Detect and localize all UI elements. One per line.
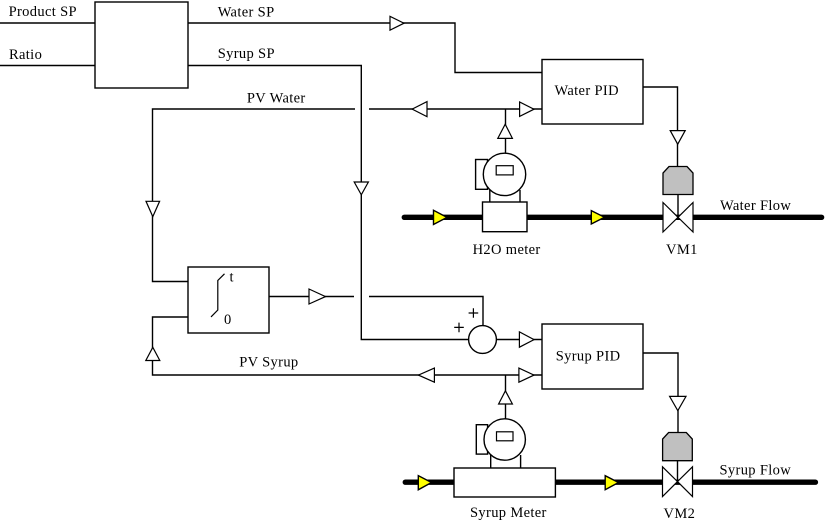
arrow right into Water PID — [520, 102, 534, 116]
ratio station block — [95, 2, 188, 88]
svg-text:0: 0 — [224, 312, 232, 328]
svg-text:Syrup PID: Syrup PID — [556, 348, 621, 364]
svg-text:VM2: VM2 — [664, 506, 696, 522]
flow arrow yellow water pipe 1 — [434, 210, 448, 224]
arrow down on PV Water left branch — [146, 201, 160, 216]
pipe water flow — [404, 215, 821, 220]
integrator block — [188, 267, 269, 333]
wire Ratio input — [0, 65, 95, 67]
arrow down from Water PID output — [670, 131, 685, 145]
arrow left on PV Syrup wire — [418, 368, 434, 382]
svg-text:Water SP: Water SP — [218, 4, 275, 20]
svg-text:H2O meter: H2O meter — [473, 242, 541, 258]
H2O meter neck — [490, 190, 520, 203]
arrow down from Syrup PID output — [670, 396, 686, 410]
svg-text:PV Water: PV Water — [247, 90, 306, 106]
arrow right from summing node into Syrup PID — [519, 332, 534, 347]
flow arrow yellow syrup pipe 2 — [605, 476, 618, 490]
wire Water SP: ratio box to Water PID — [188, 23, 542, 73]
syrup meter transmitter flag — [476, 425, 487, 454]
arrow up from H2O meter — [498, 124, 513, 138]
svg-text:Syrup Flow: Syrup Flow — [720, 462, 792, 478]
syrup meter body — [454, 468, 555, 497]
wire Syrup SP: ratio box down to summing node — [188, 66, 468, 340]
pipe syrup flow — [405, 480, 815, 485]
H2O meter body — [483, 202, 528, 232]
wire PV Syrup: Syrup PID input, left to integrator lower input — [153, 317, 543, 375]
wire PV Water left branch into integrator upper input — [153, 109, 356, 282]
svg-text:PV Syrup: PV Syrup — [239, 355, 298, 371]
wire summing node output to Syrup PID — [497, 339, 542, 341]
arrow right on Water SP wire — [390, 16, 404, 30]
svg-text:VM1: VM1 — [666, 242, 698, 258]
wire H2O meter to PV Water node — [505, 109, 507, 153]
arrow up into integrator lower input — [146, 347, 160, 360]
arrow right into Syrup PID — [519, 368, 534, 382]
wire VM1 actuator stem — [677, 195, 679, 219]
valve VM2 body — [663, 467, 678, 497]
syrup meter head window — [497, 432, 514, 441]
wire Syrup PID output to valve VM2 — [643, 353, 678, 433]
wire integrator output to summing node (gap at crossing) — [269, 296, 354, 298]
svg-text:Water Flow: Water Flow — [720, 198, 791, 214]
summing node — [454, 308, 496, 353]
arrow left on PV Water wire — [412, 102, 427, 117]
svg-text:Water PID: Water PID — [555, 83, 619, 99]
wire PV Water right segment into Water PID — [369, 108, 542, 110]
svg-text:Product SP: Product SP — [9, 4, 77, 20]
flow arrow yellow water pipe 2 — [591, 211, 604, 224]
svg-text:Ratio: Ratio — [9, 47, 42, 63]
wire Product SP input — [0, 22, 95, 24]
svg-text:Syrup Meter: Syrup Meter — [470, 505, 547, 521]
wire Water PID output to valve VM1 — [643, 87, 678, 167]
syrup meter neck — [491, 455, 521, 468]
Syrup PID block — [542, 324, 643, 389]
Water PID block — [542, 60, 643, 125]
arrow up from syrup meter — [499, 391, 513, 404]
H2O meter transmitter head — [483, 153, 525, 195]
syrup meter transmitter head — [484, 419, 525, 460]
svg-text:t: t — [230, 270, 234, 286]
H2O meter head window — [496, 166, 513, 175]
valve VM1 body — [663, 203, 678, 233]
valve VM2 actuator — [663, 433, 693, 461]
wire syrup meter to PV Syrup node — [505, 375, 507, 419]
flow arrow yellow syrup pipe 1 — [418, 476, 431, 490]
H2O meter transmitter flag — [476, 160, 488, 190]
wire VM2 actuator stem — [677, 461, 679, 482]
arrow down on Syrup SP wire — [354, 182, 368, 195]
svg-text:Syrup SP: Syrup SP — [218, 46, 275, 62]
arrow right on integrator output — [309, 289, 326, 304]
valve VM1 actuator — [663, 167, 693, 195]
